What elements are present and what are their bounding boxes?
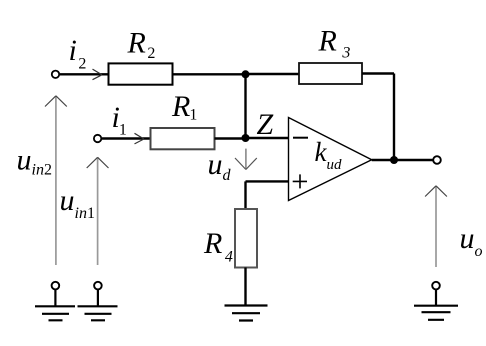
- wire node Z to op-amp inverting input: [246, 137, 289, 139]
- ground symbol right: [414, 306, 458, 320]
- voltage arrow uin2: [55, 97, 57, 266]
- wire i1 input to R1: [102, 137, 151, 139]
- terminal ground left 1: [52, 282, 60, 290]
- voltage arrow uo: [435, 187, 437, 268]
- wire node A to R3: [246, 73, 300, 75]
- svg-text:Z: Z: [257, 108, 274, 141]
- terminal ground left 2: [94, 282, 102, 290]
- op-amp plus sign: [293, 174, 307, 188]
- wire R1 to node Z: [215, 137, 246, 139]
- ground symbol left 1: [35, 306, 75, 320]
- wire R2 to node A: [173, 73, 246, 75]
- wire feedback vertical down to output node: [393, 74, 395, 161]
- terminal output: [433, 156, 441, 164]
- wire plus input down to R4: [244, 181, 246, 209]
- wire node A down to node Z: [244, 74, 246, 138]
- resistor R4: [235, 209, 257, 268]
- ground symbol left 2: [78, 306, 118, 320]
- wire op-amp output: [372, 159, 433, 161]
- resistor R2: [109, 63, 173, 84]
- wire R4 to ground: [244, 268, 246, 307]
- output node junction dot: [390, 156, 398, 164]
- node A junction dot: [242, 70, 250, 78]
- terminal T1 (input 1, middle-left): [94, 135, 101, 142]
- resistor R3: [299, 63, 362, 84]
- op-amp U1: [289, 118, 372, 201]
- wire i2 input to R2: [60, 73, 109, 75]
- node Z junction dot: [242, 134, 250, 142]
- current arrow i1: [135, 133, 144, 144]
- op-amp minus sign: [293, 137, 308, 139]
- resistor R1: [151, 128, 215, 149]
- terminal ground right: [432, 282, 440, 290]
- ground under R4: [225, 306, 268, 321]
- voltage arrow uin1: [97, 158, 99, 265]
- wire noninverting input: [246, 180, 289, 182]
- terminal T2 (input 2, top-left): [52, 71, 59, 78]
- voltage arrow ud (down): [245, 149, 247, 169]
- wire R3 to corner: [362, 72, 394, 74]
- current arrow i2: [93, 69, 102, 80]
